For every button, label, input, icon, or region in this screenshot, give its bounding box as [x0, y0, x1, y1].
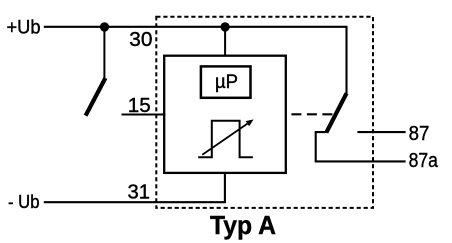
svg-text:87: 87 [409, 122, 430, 145]
svg-text:31: 31 [128, 180, 151, 203]
junction J2 [220, 22, 229, 31]
junction J1 [100, 22, 109, 31]
wire J2 to control unit [224, 27, 226, 57]
wire relay coil feed (down right side) [345, 26, 347, 94]
switch S1 feed wire [103, 27, 105, 78]
control unit box U1 [164, 56, 286, 173]
svg-text:87a: 87a [409, 149, 439, 172]
svg-text:30: 30 [129, 28, 152, 51]
wire terminal 31 [44, 173, 225, 202]
switch S1 blade (open) [86, 78, 106, 116]
contact 87a fixed terminal [316, 132, 327, 161]
relay contact blade [326, 93, 346, 132]
wire terminal 87 [357, 131, 405, 133]
svg-text:µP: µP [215, 72, 238, 93]
wire terminal 15 [122, 113, 166, 115]
svg-text:- Ub: - Ub [8, 192, 40, 212]
wire +Ub supply rail [44, 26, 348, 28]
timer pulse symbol [198, 121, 253, 158]
svg-text:Typ A: Typ A [210, 210, 276, 240]
relay module dashed enclosure [156, 17, 373, 208]
actuation dashed link [291, 113, 332, 115]
wire terminal 87a [315, 160, 406, 162]
microprocessor box [201, 66, 251, 97]
svg-text:+Ub: +Ub [7, 18, 41, 39]
timer adjustment arrow [202, 122, 249, 155]
